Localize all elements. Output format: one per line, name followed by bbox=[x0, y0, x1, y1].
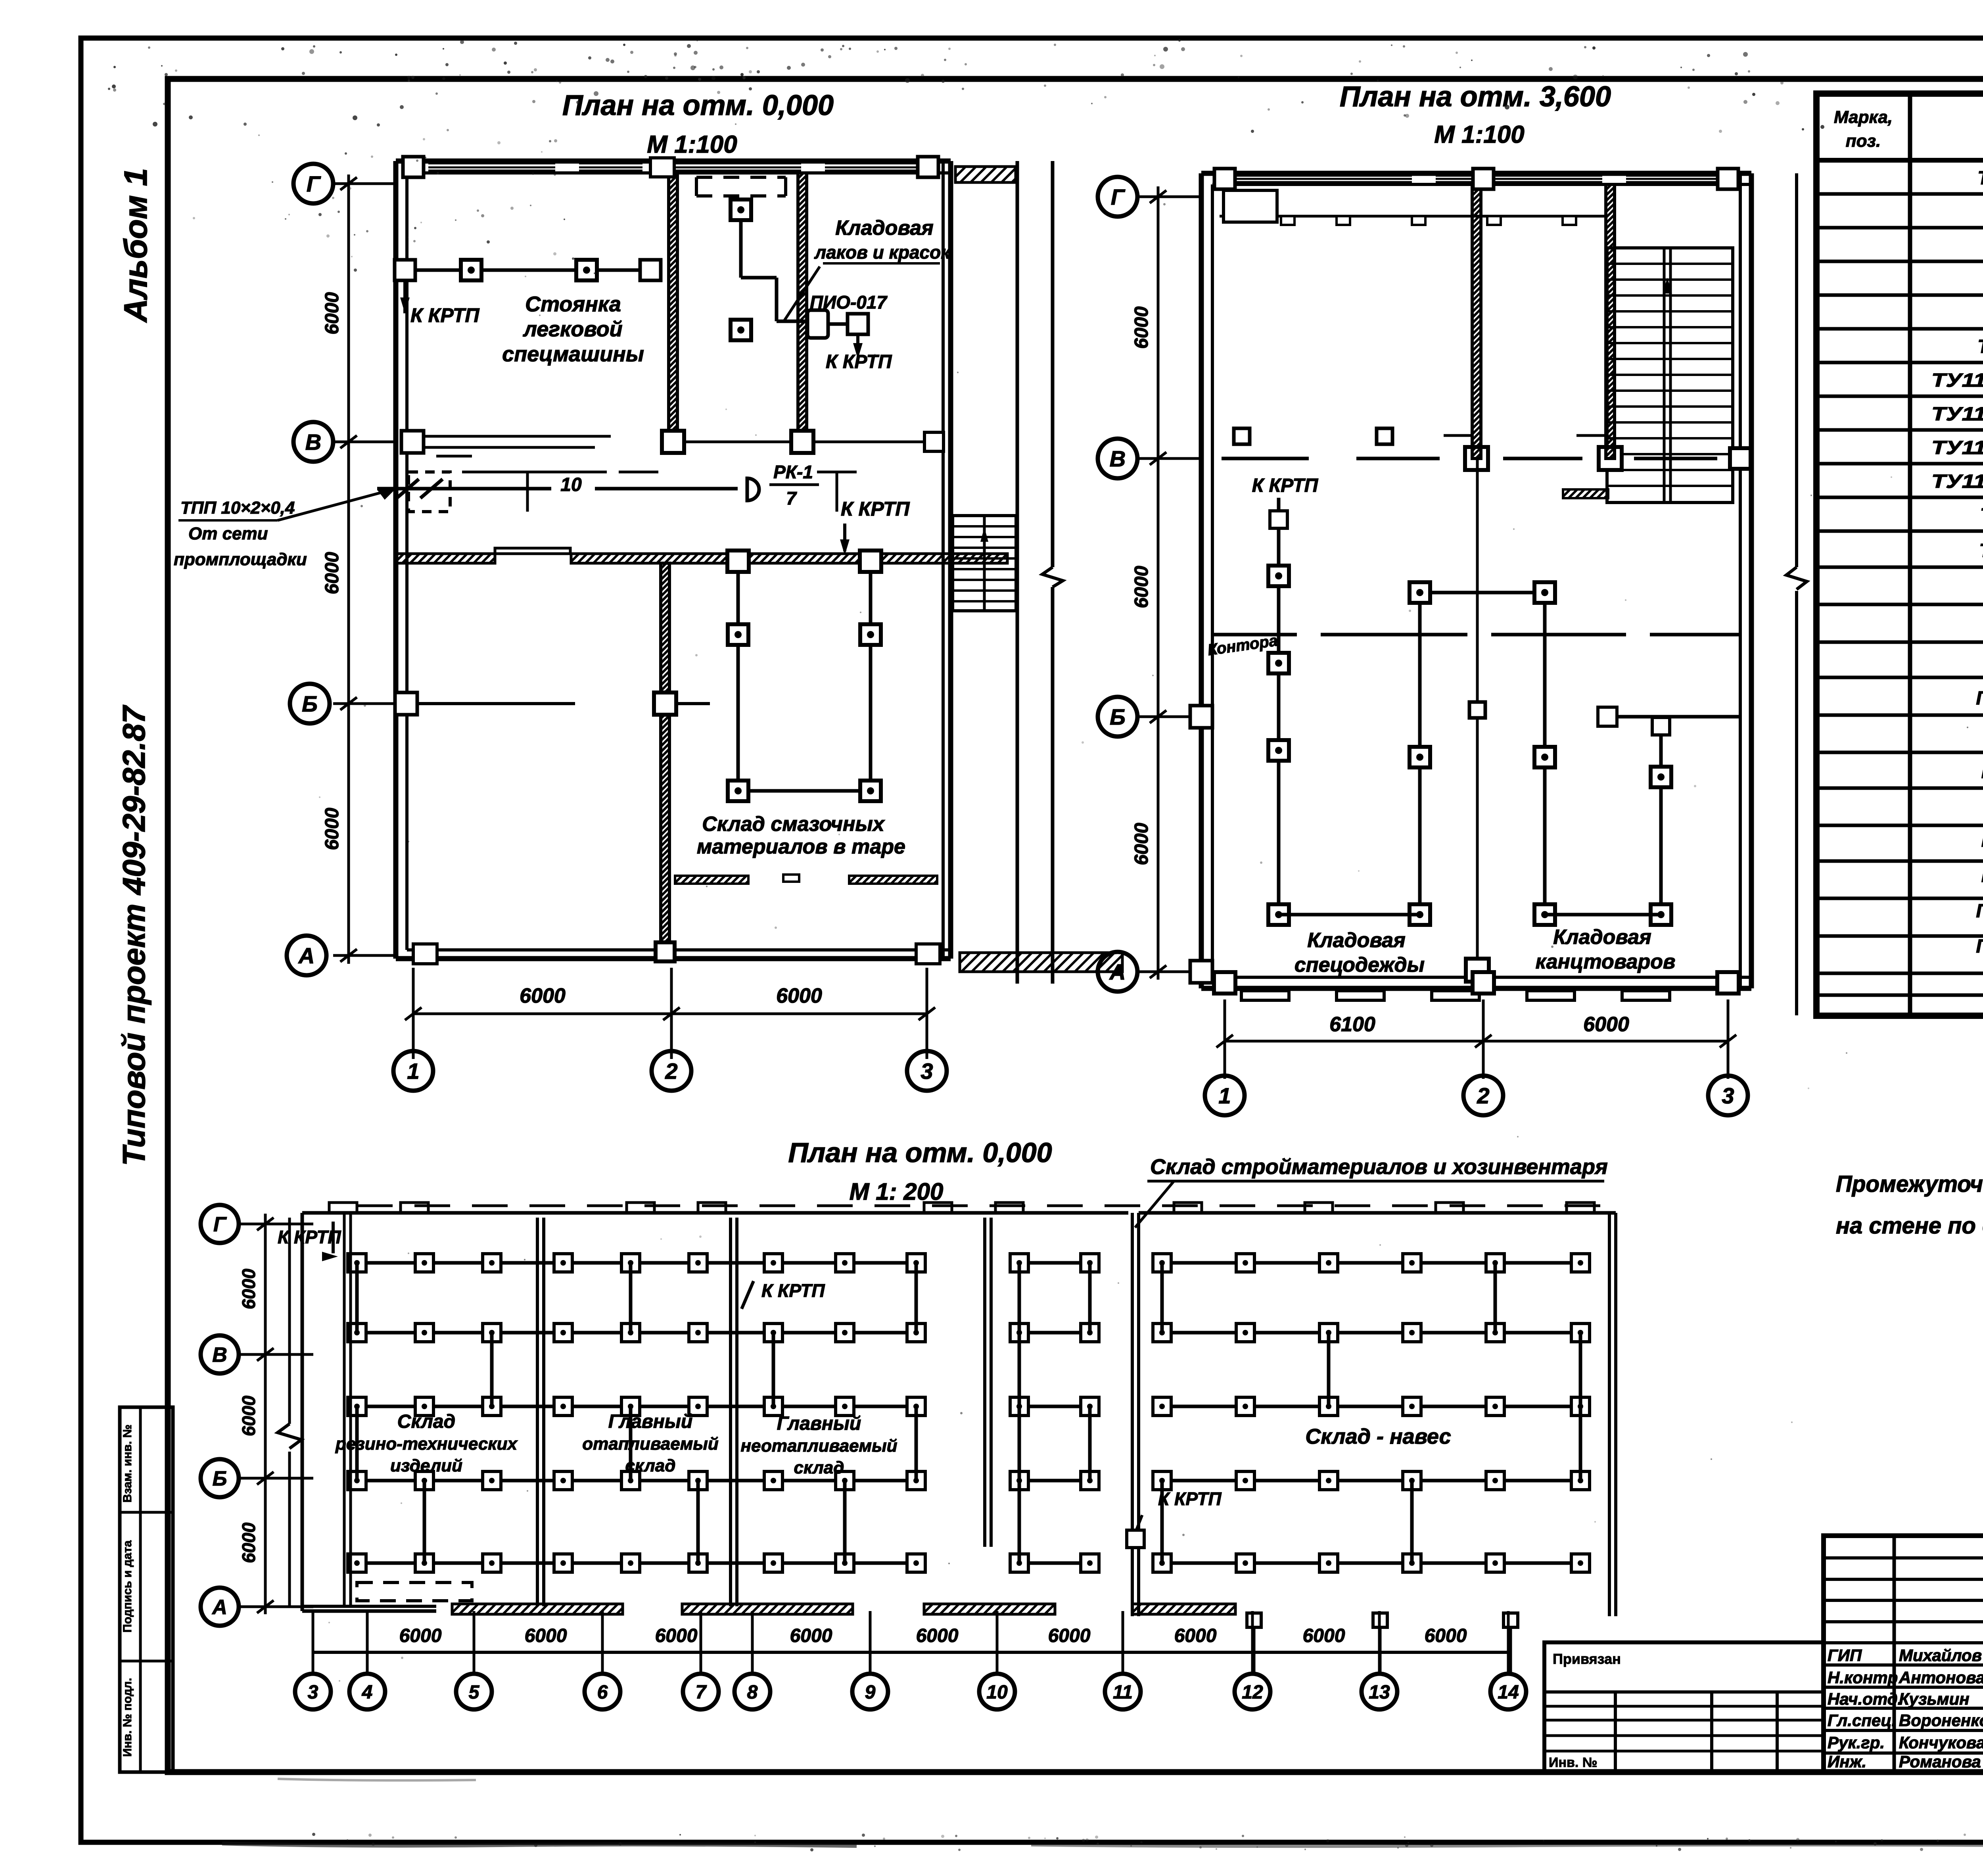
plan3 axis circle А bbox=[201, 1588, 239, 1626]
plan3 left break line bbox=[278, 1218, 301, 1606]
plan 3 title bbox=[788, 1137, 1052, 1205]
svg-text:6000: 6000 bbox=[916, 1625, 959, 1646]
plan1 bottom wall openings bbox=[413, 944, 940, 964]
plan2 upper partial walls bbox=[1444, 434, 1606, 437]
plan3 навес posts bbox=[1247, 1613, 1518, 1674]
plan3 column circle 5 bbox=[456, 1611, 492, 1709]
plan1 axis circle А bbox=[287, 936, 326, 975]
svg-text:А: А bbox=[211, 1596, 227, 1619]
svg-text:6000: 6000 bbox=[525, 1625, 567, 1646]
svg-text:лаков и красок: лаков и красок bbox=[814, 242, 951, 263]
plan3 top dashed line bbox=[357, 1205, 1610, 1207]
plan2 room labels bbox=[1295, 926, 1676, 976]
plan3 partition x=1360 bbox=[537, 1218, 544, 1606]
svg-text:легковой: легковой bbox=[522, 317, 622, 341]
plan2 axis circle Б bbox=[1098, 697, 1137, 737]
plan1 detector loop in parking room bbox=[395, 260, 661, 313]
svg-text:13: 13 bbox=[1369, 1682, 1390, 1703]
svg-text:Г: Г bbox=[307, 171, 321, 196]
plan2 corridor walls bbox=[1212, 633, 1740, 637]
plan 2 title bbox=[1340, 81, 1611, 148]
svg-text:3: 3 bbox=[308, 1682, 318, 1703]
svg-text:М 1:100: М 1:100 bbox=[1434, 121, 1524, 148]
plan1 storeroom detectors and ПИО-017 bbox=[731, 199, 868, 359]
plan3 склад стройматериалов label bbox=[1135, 1155, 1608, 1228]
plan1 К КРТП corridor label bbox=[840, 498, 910, 555]
plan1 column circle 1 bbox=[393, 1039, 433, 1091]
svg-text:Подпись и дата: Подпись и дата bbox=[121, 1540, 134, 1632]
svg-text:2: 2 bbox=[1477, 1083, 1489, 1108]
svg-text:6000: 6000 bbox=[1131, 566, 1152, 608]
svg-text:От сети: От сети bbox=[188, 524, 268, 543]
svg-text:6000: 6000 bbox=[520, 984, 566, 1007]
svg-text:Типовой проект 409-29-82.87: Типовой проект 409-29-82.87 bbox=[116, 705, 152, 1166]
plan3 навес right wall bbox=[1139, 1213, 1616, 1616]
svg-text:К КРТП: К КРТП bbox=[1158, 1489, 1222, 1509]
svg-text:Рук.гр.: Рук.гр. bbox=[1828, 1733, 1885, 1752]
svg-text:Склад - навес: Склад - навес bbox=[1305, 1425, 1451, 1448]
svg-text:6000: 6000 bbox=[655, 1625, 698, 1646]
svg-text:Кладовая: Кладовая bbox=[835, 217, 933, 240]
plan2 left dimension line bbox=[1131, 186, 1201, 980]
svg-text:ПИО-017: ПИО-017 bbox=[810, 292, 888, 313]
plan3 detector row 5 bbox=[348, 1554, 1590, 1572]
svg-text:К КРТП: К КРТП bbox=[841, 498, 910, 520]
plan1 wall on axis В bbox=[401, 431, 944, 456]
plan1 top windows band bbox=[428, 163, 924, 171]
plan1 bottom-right hatched wall bbox=[960, 953, 1122, 972]
plan3 К КРТП label right bbox=[1127, 1489, 1222, 1548]
plan1 building outer walls bbox=[396, 161, 951, 959]
plan2 right outer line with break bbox=[1786, 173, 1807, 1015]
specification table grid bbox=[1816, 94, 1983, 1016]
left margin label: Альбом 1 bbox=[118, 168, 154, 323]
svg-text:неотапливаемый: неотапливаемый bbox=[740, 1436, 897, 1456]
svg-text:Б: Б bbox=[213, 1467, 227, 1490]
svg-text:В: В bbox=[305, 430, 321, 455]
svg-text:1: 1 bbox=[407, 1059, 419, 1084]
svg-text:склад: склад bbox=[794, 1458, 844, 1477]
plan3 навес left wall bbox=[1132, 1213, 1139, 1616]
svg-text:Кончукова: Кончукова bbox=[1899, 1733, 1983, 1752]
plan2 контора label bbox=[1206, 632, 1279, 659]
plan2 center line bbox=[1466, 458, 1489, 982]
svg-text:9: 9 bbox=[865, 1682, 876, 1703]
title block signature rows bbox=[1828, 1645, 1983, 1771]
plan3 column circle 7 bbox=[683, 1611, 719, 1709]
svg-text:ТУ ТРЗ. 362. 060: ТУ ТРЗ. 362. 060 bbox=[1979, 541, 1983, 562]
plan1 storage room label bbox=[697, 813, 905, 858]
plan3 partition x=1847 bbox=[731, 1218, 737, 1606]
svg-text:10: 10 bbox=[560, 474, 582, 495]
plan2 stairs bbox=[1563, 248, 1733, 503]
svg-text:План на отм. 3,600: План на отм. 3,600 bbox=[1340, 81, 1611, 113]
svg-text:на стене по оси В-3.: на стене по оси В-3. bbox=[1836, 1213, 1983, 1239]
svg-text:отапливаемый: отапливаемый bbox=[582, 1434, 719, 1454]
svg-text:6000: 6000 bbox=[1048, 1625, 1091, 1646]
plan2 building outer walls bbox=[1201, 173, 1751, 988]
plan2 detector chain B and C bbox=[1279, 582, 1555, 925]
svg-text:ТУ а АО 3361-70: ТУ а АО 3361-70 bbox=[1980, 505, 1983, 526]
plan1 feed annotation ТПП bbox=[174, 489, 396, 569]
svg-text:6000: 6000 bbox=[1131, 306, 1152, 349]
plan3 building walls bbox=[302, 1213, 1128, 1611]
svg-text:ТУ11-75-ОЖО.467.107: ТУ11-75-ОЖО.467.107 bbox=[1931, 370, 1983, 391]
svg-text:Кузьмин: Кузьмин bbox=[1899, 1690, 1970, 1708]
plan2 top windows bbox=[1220, 176, 1725, 225]
svg-text:6000: 6000 bbox=[238, 1395, 259, 1436]
plan2 upper partition x=4060 bbox=[1606, 184, 1615, 458]
plan2 top wall markers bbox=[1214, 169, 1738, 189]
svg-text:Гл.спец.: Гл.спец. bbox=[1828, 1711, 1896, 1730]
svg-text:6000: 6000 bbox=[322, 552, 343, 594]
svg-text:Кладовая: Кладовая bbox=[1307, 929, 1405, 952]
plan1 axis circle Б bbox=[290, 684, 330, 723]
plan1 axis circle Г bbox=[293, 164, 333, 203]
svg-text:изделий: изделий bbox=[390, 1456, 462, 1475]
plan3 axis circle Г bbox=[201, 1205, 239, 1243]
svg-text:А: А bbox=[298, 943, 315, 968]
plan1 wall column markers bbox=[403, 157, 938, 177]
svg-text:ГОСТ 20575-75*Е: ГОСТ 20575-75*Е bbox=[1976, 936, 1983, 957]
svg-text:ТУ 25-04.2061-76: ТУ 25-04.2061-76 bbox=[1977, 168, 1983, 189]
svg-text:К КРТП: К КРТП bbox=[1252, 475, 1319, 496]
svg-text:Б: Б bbox=[302, 691, 318, 716]
svg-text:6000: 6000 bbox=[790, 1625, 832, 1646]
plan2 axis circle А bbox=[1098, 952, 1137, 992]
plan2 upper partition x=3723 bbox=[1472, 184, 1481, 458]
svg-text:Инв. №: Инв. № bbox=[1549, 1755, 1598, 1770]
svg-text:А: А bbox=[1109, 959, 1126, 984]
svg-text:7: 7 bbox=[696, 1682, 707, 1703]
svg-text:Промежуточное устройство ПИ: Промежуточное устройство ПИО-017 устанав… bbox=[1836, 1171, 1983, 1197]
svg-text:М 1: 200: М 1: 200 bbox=[850, 1178, 944, 1205]
svg-text:6000: 6000 bbox=[322, 808, 343, 850]
svg-text:Главный: Главный bbox=[608, 1411, 692, 1432]
svg-text:ГОСТ 1508-78*Е: ГОСТ 1508-78*Е bbox=[1981, 865, 1983, 886]
plan1 left dimension line bbox=[322, 175, 396, 964]
plan1 partition wall x=1677 lower bbox=[654, 563, 676, 961]
plan2 detector chain D bbox=[1545, 717, 1671, 925]
svg-text:Б: Б bbox=[1110, 704, 1126, 729]
plan3 column circle 8 bbox=[735, 1611, 770, 1709]
svg-text:Г: Г bbox=[213, 1213, 227, 1236]
svg-text:6000: 6000 bbox=[1131, 823, 1152, 865]
svg-text:6000: 6000 bbox=[776, 984, 822, 1007]
svg-text:Привязан: Привязан bbox=[1553, 1651, 1621, 1667]
plan1 wall stubs on axis Б bbox=[395, 692, 710, 715]
plan3 axis circle Б bbox=[201, 1459, 239, 1497]
plan1 column circle 3 bbox=[907, 1039, 947, 1091]
plan3 detector row 2 bbox=[348, 1324, 1590, 1342]
svg-text:3: 3 bbox=[1722, 1083, 1734, 1108]
plan3 column circle 14 bbox=[1490, 1611, 1526, 1709]
svg-text:7: 7 bbox=[786, 488, 797, 508]
plan3 bottom dimension line bbox=[313, 1625, 1508, 1652]
svg-text:спецмашины: спецмашины bbox=[502, 342, 644, 366]
svg-text:8: 8 bbox=[747, 1682, 758, 1703]
plan3 partition x=2488 bbox=[985, 1218, 991, 1547]
svg-text:ГОСТ 1508-78*Е: ГОСТ 1508-78*Е bbox=[1981, 830, 1983, 851]
svg-text:Склад смазочных: Склад смазочных bbox=[702, 813, 885, 836]
plan3 axis circle В bbox=[201, 1335, 239, 1373]
title block left extension bbox=[1544, 1642, 1824, 1772]
svg-text:Стоянка: Стоянка bbox=[525, 292, 621, 316]
plan2 axis circle В bbox=[1098, 439, 1137, 478]
plan1 right strip walls bbox=[1017, 161, 1063, 984]
svg-text:14: 14 bbox=[1498, 1682, 1519, 1703]
plan3 column circle 10 bbox=[979, 1611, 1015, 1709]
plan1 stairs bbox=[953, 516, 1016, 611]
svg-text:2: 2 bbox=[665, 1059, 677, 1084]
svg-text:В: В bbox=[1110, 446, 1126, 471]
plan1 lower partial walls bbox=[675, 875, 937, 884]
svg-text:К КРТП: К КРТП bbox=[826, 351, 892, 372]
svg-text:склад: склад bbox=[625, 1456, 676, 1475]
plan3 room labels bbox=[335, 1411, 1451, 1477]
svg-text:спецодежды: спецодежды bbox=[1295, 953, 1425, 976]
svg-text:промплощадки: промплощадки bbox=[174, 550, 307, 569]
plan1 interior furniture lines bbox=[408, 472, 857, 512]
svg-text:11: 11 bbox=[1113, 1682, 1133, 1703]
svg-text:материалов в таре: материалов в таре bbox=[697, 835, 905, 858]
plan2 bottom dimension line bbox=[1216, 999, 1736, 1067]
svg-text:10: 10 bbox=[986, 1682, 1008, 1703]
svg-text:Михайлов: Михайлов bbox=[1899, 1646, 1982, 1665]
plan3 left dimension line bbox=[238, 1214, 313, 1614]
svg-text:Нач.отд.: Нач.отд. bbox=[1828, 1690, 1902, 1708]
svg-text:6000: 6000 bbox=[238, 1268, 259, 1309]
plan3 column circle 9 bbox=[852, 1611, 888, 1709]
svg-text:ТПП 10×2×0,4: ТПП 10×2×0,4 bbox=[180, 498, 295, 518]
svg-text:Н.контр: Н.контр bbox=[1828, 1668, 1898, 1687]
plan3 column circle 12 bbox=[1235, 1611, 1270, 1709]
svg-text:Взам. инв. №: Взам. инв. № bbox=[121, 1425, 134, 1503]
plan1 corridor wire РК-1/7 bbox=[377, 462, 819, 508]
svg-text:Инж.: Инж. bbox=[1828, 1752, 1866, 1771]
svg-text:Склад: Склад bbox=[397, 1411, 455, 1432]
plan2 column circle 2 bbox=[1463, 1067, 1503, 1115]
plan1 bottom dimension line bbox=[405, 968, 935, 1039]
svg-text:Вороненков: Вороненков bbox=[1899, 1711, 1983, 1730]
plan3 К КРТП label left bbox=[278, 1222, 341, 1261]
plan2 bottom windows bbox=[1214, 972, 1739, 1000]
svg-text:К КРТП: К КРТП bbox=[761, 1280, 825, 1301]
plan1 labels кладовая лаков bbox=[784, 217, 951, 372]
plan3 К КРТП label middle bbox=[742, 1280, 825, 1309]
svg-text:резино-технических: резино-технических bbox=[335, 1434, 518, 1454]
plan 1 title bbox=[562, 90, 834, 158]
svg-text:6000: 6000 bbox=[1425, 1625, 1467, 1646]
plan3 column circle 6 bbox=[585, 1611, 620, 1709]
svg-text:Г: Г bbox=[1111, 184, 1126, 209]
plan3 bottom dashed opening bbox=[357, 1583, 472, 1601]
svg-text:6000: 6000 bbox=[322, 292, 343, 334]
svg-text:6000: 6000 bbox=[1303, 1625, 1345, 1646]
svg-text:3: 3 bbox=[921, 1059, 933, 1084]
svg-text:6000: 6000 bbox=[1174, 1625, 1217, 1646]
svg-text:Кладовая: Кладовая bbox=[1553, 926, 1651, 949]
plan3 detector row 3 bbox=[348, 1397, 1590, 1416]
svg-text:РК-1: РК-1 bbox=[773, 462, 813, 482]
table row texts bbox=[1931, 168, 1983, 991]
left margin label: Типовой проект 409-29-82.87 bbox=[116, 705, 152, 1166]
plan1 К КРТП label top bbox=[410, 304, 479, 326]
svg-text:ТУ11-75-ОЖО.467.107: ТУ11-75-ОЖО.467.107 bbox=[1931, 471, 1983, 492]
svg-text:Антонова: Антонова bbox=[1899, 1668, 1983, 1687]
plan1 room label parking bbox=[502, 292, 644, 366]
svg-text:Романова: Романова bbox=[1899, 1752, 1981, 1771]
plan2 detector chain A bbox=[1252, 475, 1319, 925]
svg-text:М 1:100: М 1:100 bbox=[647, 131, 737, 158]
plan3 riser line bbox=[344, 1214, 351, 1606]
plan1 top-right hatched wall bbox=[955, 167, 1016, 182]
plan2 wall on axis Б right bbox=[1190, 706, 1740, 983]
svg-text:6100: 6100 bbox=[1329, 1013, 1375, 1036]
svg-text:6000: 6000 bbox=[399, 1625, 442, 1646]
plan2 column circle 1 bbox=[1205, 1067, 1245, 1115]
plan3 vertical wires bbox=[357, 1263, 1580, 1563]
plan3 column circle 13 bbox=[1362, 1611, 1397, 1709]
svg-text:Марка,: Марка, bbox=[1834, 107, 1893, 127]
svg-text:План на отм. 0,000: План на отм. 0,000 bbox=[788, 1137, 1052, 1168]
svg-text:ГОСТ 10040-75*Е: ГОСТ 10040-75*Е bbox=[1976, 688, 1983, 709]
note text about ПИО-017 bbox=[1836, 1171, 1983, 1239]
table headers bbox=[1834, 107, 1983, 156]
plan1 partition wall x=1700 upper bbox=[662, 173, 684, 453]
svg-text:Главный: Главный bbox=[777, 1413, 861, 1434]
plan2 axis circle Г bbox=[1098, 177, 1137, 217]
svg-text:ТУ 25-04.2060-76: ТУ 25-04.2060-76 bbox=[1977, 336, 1983, 357]
svg-text:5: 5 bbox=[469, 1682, 480, 1703]
svg-text:4: 4 bbox=[362, 1682, 373, 1703]
svg-text:12: 12 bbox=[1242, 1682, 1263, 1703]
plan2 column circle 3 bbox=[1708, 1067, 1748, 1115]
plan1 detector loop in storage room bbox=[727, 551, 881, 801]
svg-text:ГОСТ 22498-77*Е: ГОСТ 22498-77*Е bbox=[1976, 901, 1983, 922]
svg-text:ГОСТ 8525-78*Е: ГОСТ 8525-78*Е bbox=[1981, 762, 1983, 783]
left stamp column cells bbox=[120, 1407, 173, 1772]
svg-text:ГИП: ГИП bbox=[1828, 1646, 1862, 1665]
svg-text:1: 1 bbox=[1218, 1083, 1231, 1108]
plan3 column circle 4 bbox=[349, 1611, 385, 1709]
plan3 column circle 11 bbox=[1105, 1611, 1141, 1709]
svg-text:В: В bbox=[212, 1344, 227, 1367]
svg-text:ТУ11-75-ОЖО.467.107: ТУ11-75-ОЖО.467.107 bbox=[1931, 404, 1983, 425]
svg-text:К КРТП: К КРТП bbox=[410, 304, 479, 326]
title block signature grid bbox=[1824, 1536, 1983, 1772]
plan3 detector row 4 bbox=[348, 1471, 1590, 1490]
plan3 detector row 1 bbox=[348, 1254, 1590, 1272]
plan1 corridor lower wall bbox=[396, 548, 1007, 563]
svg-text:Склад стройматериалов и хози: Склад стройматериалов и хозинвентаря bbox=[1150, 1155, 1608, 1179]
plan2 wall on axis В bbox=[1222, 428, 1751, 470]
svg-text:6000: 6000 bbox=[1583, 1013, 1629, 1036]
plan1 axis circle В bbox=[293, 422, 333, 462]
svg-text:6000: 6000 bbox=[238, 1522, 259, 1563]
plan1 top door dashed opening bbox=[696, 177, 786, 196]
plan1 partition wall x=2022 upper bbox=[791, 173, 813, 453]
plan3 roof hooks bbox=[329, 1203, 1594, 1213]
svg-text:6: 6 bbox=[597, 1682, 608, 1703]
svg-text:канцтоваров: канцтоваров bbox=[1536, 950, 1676, 973]
svg-text:План на отм. 0,000: План на отм. 0,000 bbox=[562, 90, 834, 121]
svg-text:Альбом 1: Альбом 1 bbox=[118, 168, 154, 323]
plan1 column circle 2 bbox=[652, 1039, 691, 1091]
svg-text:Инв. № подл.: Инв. № подл. bbox=[121, 1678, 134, 1757]
svg-text:ТУ11-75-ОЖО.467.107: ТУ11-75-ОЖО.467.107 bbox=[1931, 437, 1983, 458]
plan3 bottom wall segments bbox=[302, 1604, 1235, 1614]
plan3 column circle 3 bbox=[295, 1611, 331, 1709]
svg-text:поз.: поз. bbox=[1846, 131, 1881, 151]
